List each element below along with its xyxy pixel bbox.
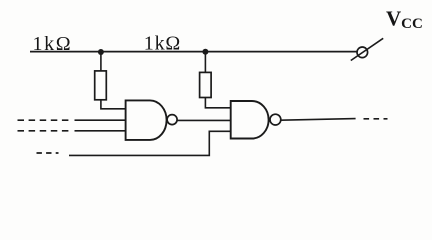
input A dashed continuation	[18, 119, 69, 121]
wire: Vcc rail	[30, 51, 357, 53]
resistor R1	[95, 71, 107, 100]
wire: U2 output	[281, 119, 356, 121]
junction dot node N2	[202, 49, 208, 55]
wire: U1 output to U2 middle input	[177, 119, 231, 121]
NAND gate U2 body	[231, 101, 269, 139]
input C dashed continuation	[37, 152, 59, 154]
junction dot node N1	[98, 49, 104, 55]
wire: input A to U1	[75, 119, 126, 121]
output dashed continuation	[364, 118, 388, 120]
NAND U1 output bubble	[167, 115, 177, 125]
wire: R2 to U2 top input	[205, 98, 230, 108]
input B dashed continuation	[18, 130, 69, 132]
wire: N1 down to R1	[100, 52, 102, 71]
NAND U2 output bubble	[270, 114, 281, 125]
paper background	[0, 0, 432, 180]
NAND gate U1 body	[126, 100, 167, 139]
wire: input B to U1	[75, 130, 126, 132]
wire: input C bottom run to U2 bottom input	[69, 131, 231, 155]
svg-text:1kΩ: 1kΩ	[33, 33, 73, 55]
wire: R1 to U1 top input	[101, 100, 126, 109]
resistor R2	[200, 72, 212, 97]
terminal Vcc (open circle with slash)	[351, 38, 383, 60]
svg-text:1kΩ: 1kΩ	[144, 33, 181, 55]
wire: N2 down to R2	[204, 52, 206, 73]
